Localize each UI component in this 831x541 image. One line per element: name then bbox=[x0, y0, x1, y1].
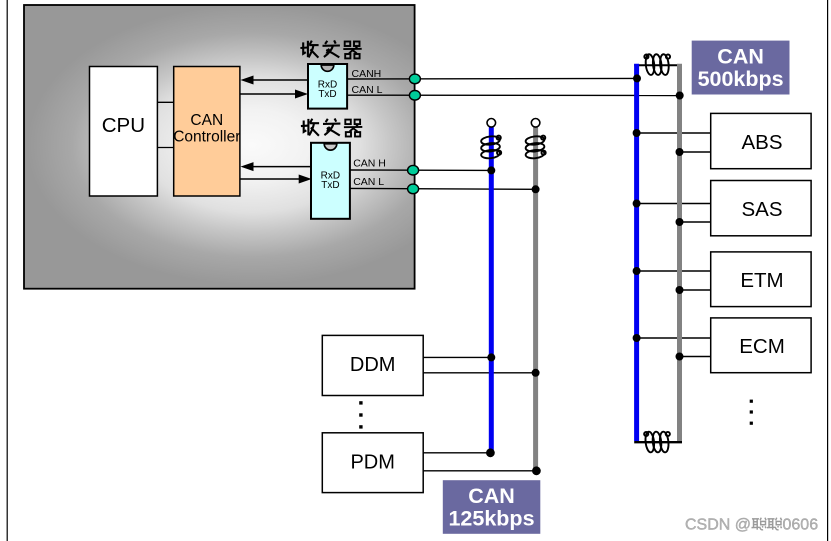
svg-text:TxD: TxD bbox=[318, 89, 336, 100]
svg-text:125kbps: 125kbps bbox=[448, 506, 534, 530]
CAN-L 500k bus line (gray) bbox=[677, 64, 682, 441]
ABS box bbox=[711, 113, 811, 168]
svg-text:ECM: ECM bbox=[739, 335, 785, 358]
svg-text:0606: 0606 bbox=[783, 517, 819, 534]
wire ECM to gray bus bbox=[680, 356, 711, 358]
wire SAS to blue bus bbox=[637, 203, 711, 205]
wire SAS to gray bus bbox=[680, 221, 711, 223]
svg-text:DDM: DDM bbox=[350, 354, 396, 376]
transceiver U3 notch bbox=[324, 144, 337, 150]
CAN Controller U1 bbox=[174, 67, 240, 197]
label CAN 125kbps bbox=[443, 480, 541, 534]
junction dot blue125/DDM bbox=[487, 353, 495, 361]
terminator coil L1 (125k blue bus) bbox=[481, 135, 501, 159]
125k gray bus open terminal circle bbox=[531, 119, 540, 128]
junction dot gray500/ETM bbox=[676, 286, 684, 294]
arrow TxD to transceiver2 bbox=[241, 178, 301, 180]
node CAN H stub (teal) bbox=[408, 165, 419, 175]
CAN-H 125k bus line (blue) bbox=[489, 127, 494, 450]
terminator coil R1 (top, 500k bus) bbox=[644, 54, 670, 76]
SAS box bbox=[711, 181, 811, 236]
svg-text:CAN: CAN bbox=[468, 484, 515, 508]
svg-text:CANH: CANH bbox=[352, 68, 382, 80]
svg-text:CSDN @: CSDN @ bbox=[685, 517, 751, 534]
junction dot CANH/blue125 bbox=[487, 166, 495, 174]
svg-text:ETM: ETM bbox=[740, 269, 783, 292]
CAN-H 500k bus line (blue) bbox=[634, 64, 639, 441]
wire DDM to 125k gray bus bbox=[423, 372, 535, 374]
svg-text:CPU: CPU bbox=[102, 114, 145, 137]
CPU box bbox=[90, 67, 158, 197]
svg-text:TxD: TxD bbox=[321, 180, 339, 191]
wire ABS to blue bus bbox=[637, 132, 711, 134]
wire ECM to blue bus bbox=[637, 337, 711, 339]
transceiver U2 notch bbox=[321, 65, 334, 71]
wire PDM to 125k gray bus end bbox=[423, 470, 536, 472]
junction dot CANH/blue500 bbox=[633, 74, 641, 82]
frame left border line bbox=[6, 0, 8, 541]
wire DDM to 125k blue bus bbox=[423, 356, 491, 358]
svg-text:ABS: ABS bbox=[741, 131, 782, 154]
arrow RxD to controller (transceiver2) bbox=[252, 166, 312, 168]
ellipsis below ECM bbox=[750, 400, 753, 425]
wire ETM to gray bus bbox=[680, 289, 711, 291]
node CANH stub (teal) bbox=[409, 74, 420, 84]
junction dot CANL/gray125 bbox=[532, 185, 540, 193]
label transceiver2 收发器 bbox=[301, 119, 362, 137]
arrow TxD to transceiver1 bbox=[241, 93, 297, 95]
ECM box bbox=[711, 318, 811, 373]
svg-text:CAN: CAN bbox=[190, 112, 223, 129]
svg-text:PDM: PDM bbox=[350, 452, 394, 474]
500k bus top connector wire bbox=[634, 64, 682, 66]
junction dot blue500/ETM bbox=[633, 267, 641, 275]
wire ETM to blue bus bbox=[637, 270, 711, 272]
transceiver U3 body bbox=[311, 143, 350, 219]
watermark CSDN bbox=[685, 517, 818, 534]
junction dot blue500/SAS bbox=[633, 200, 641, 208]
ellipsis between DDM and PDM bbox=[359, 401, 362, 428]
arrow RxD to controller (transceiver1) bbox=[252, 79, 308, 81]
junction dot gray125/DDM bbox=[532, 369, 540, 377]
svg-text:SAS: SAS bbox=[741, 198, 782, 221]
node CAN L stub (teal) bbox=[408, 184, 419, 194]
terminator coil L2 (125k gray bus) bbox=[525, 135, 545, 159]
junction dot gray500/ECM bbox=[676, 353, 684, 361]
wire PDM to 125k blue bus end bbox=[423, 452, 490, 454]
wire CPU-controller upper bbox=[157, 101, 173, 103]
label CAN 500kbps bbox=[692, 41, 790, 95]
svg-text:CAN: CAN bbox=[717, 44, 764, 68]
label transceiver1 收发器 bbox=[300, 40, 361, 58]
wire CANL from U2 to 500k gray bus bbox=[347, 94, 680, 96]
ETM box bbox=[711, 252, 811, 307]
wire ABS to gray bus bbox=[680, 151, 711, 153]
CAN-L 125k bus line (gray) bbox=[533, 127, 538, 468]
junction dot gray500/SAS bbox=[676, 218, 684, 226]
junction dot gray125 end/PDM bbox=[532, 466, 541, 475]
125k blue bus open terminal circle bbox=[487, 119, 496, 128]
wire CANH from U2 to 500k blue bus bbox=[347, 77, 637, 80]
wire CAN H from U3 to 125k blue bus bbox=[350, 169, 491, 171]
junction dot gray500/ABS bbox=[676, 148, 684, 156]
svg-text:500kbps: 500kbps bbox=[698, 67, 784, 91]
svg-text:CAN L: CAN L bbox=[352, 84, 383, 96]
svg-text:Controller: Controller bbox=[173, 129, 240, 146]
svg-text:CAN H: CAN H bbox=[353, 157, 386, 169]
wire CAN L from U3 to 125k gray bus bbox=[350, 187, 536, 190]
DDM box bbox=[322, 335, 423, 395]
wire CPU-controller lower bbox=[157, 147, 173, 149]
frame right border line bbox=[827, 0, 829, 541]
junction dot blue125 end/PDM bbox=[486, 448, 495, 457]
transceiver U2 body bbox=[308, 64, 347, 109]
junction dot blue500/ABS bbox=[633, 129, 641, 137]
PDM box bbox=[322, 433, 423, 493]
svg-text:CAN L: CAN L bbox=[353, 176, 384, 188]
junction dot blue500/ECM bbox=[633, 334, 641, 342]
junction dot CANL/gray500 bbox=[676, 92, 684, 100]
ECU module gray box (MCU node) bbox=[24, 5, 415, 289]
500k bus bottom connector wire bbox=[634, 441, 682, 443]
terminator coil R2 (bottom, 500k bus) bbox=[644, 431, 670, 453]
node CANL stub (teal) bbox=[409, 91, 420, 101]
